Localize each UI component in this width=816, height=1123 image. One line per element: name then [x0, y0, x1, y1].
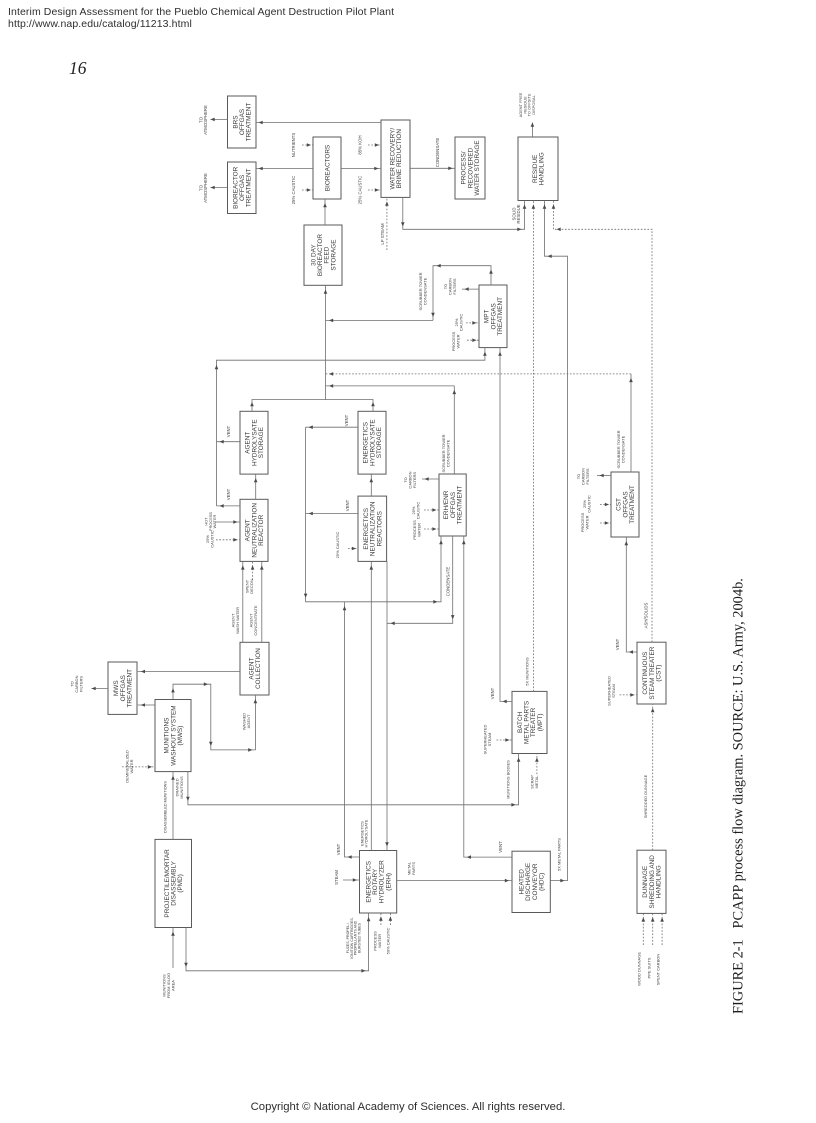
wire ash/solids from CST to residue handling	[552, 201, 652, 643]
wire bioreactors to water recovery	[341, 167, 381, 171]
wire residue handling to offsite disposal	[531, 123, 535, 138]
wire ERH vent	[343, 602, 360, 859]
svg-text:BRINE REDUCTION: BRINE REDUCTION	[396, 129, 403, 189]
wire to carbon filters from CST offgas	[597, 474, 611, 478]
svg-text:FILTERS: FILTERS	[412, 472, 417, 488]
label 85% KOH	[357, 135, 362, 154]
svg-text:WATER: WATER	[417, 523, 422, 537]
wire ERH/ENR offgas condensate header	[326, 384, 455, 388]
svg-text:ATMOSPHERE: ATMOSPHERE	[203, 173, 208, 203]
label TO ATMOSPHERE (bioreactor offgas)	[198, 173, 208, 203]
wire 25% caustic into MPT offgas	[466, 321, 479, 325]
box HEATED DISCHARGE CONVEYOR (HDC)	[512, 851, 550, 912]
label VENT (agent reactor)	[226, 488, 231, 500]
svg-text:SHREDDED DUNNAGE: SHREDDED DUNNAGE	[643, 774, 648, 818]
wire scrap metal stub	[535, 754, 539, 775]
label 25% CAUSTIC (agent reactor)	[205, 530, 214, 548]
svg-text:HYDROLYSATE: HYDROLYSATE	[365, 819, 369, 847]
wire process water into ERH	[379, 913, 383, 925]
box RESIDUE HANDLING	[518, 137, 558, 201]
wire bioreactors to bioreactor offgas	[256, 167, 313, 171]
wire superheated steam into batch MPT	[497, 738, 513, 742]
box ENERGETICS NEUTRALIZATION REACTORS	[358, 496, 387, 561]
label METAL PARTS	[407, 861, 416, 875]
label VENT (HDC)	[498, 841, 503, 853]
svg-text:CONDENSATE: CONDENSATE	[423, 277, 428, 305]
label AGENT CONCENTRATE	[249, 605, 258, 635]
svg-text:CONDENSATE: CONDENSATE	[435, 138, 440, 168]
svg-text:TREATMENT: TREATMENT	[629, 485, 636, 524]
svg-text:STEAM: STEAM	[334, 870, 339, 885]
svg-text:AREA: AREA	[170, 980, 175, 991]
wire water recovery condensate to process water storage	[410, 167, 455, 171]
svg-text:STORAGE: STORAGE	[330, 240, 337, 271]
box WATER RECOVERY / BRINE REDUCTION	[381, 120, 410, 197]
svg-text:STORAGE: STORAGE	[376, 427, 383, 458]
label 25% CAUSTIC (ERH/ENR offgas)	[411, 502, 420, 520]
label TO CARBON FILTERS (CST offgas)	[576, 468, 590, 485]
wire energetics reactors to energetics storage	[370, 474, 374, 496]
wire spent carbon into dunnage shredding	[660, 913, 664, 945]
box AGENT COLLECTION	[240, 642, 269, 695]
wire 5X munitions from batch MPT to residue handling	[532, 201, 536, 692]
wire 30 day storage feed to bioreactors	[323, 199, 327, 225]
wire 25% caustic into ERH/ENR offgas	[424, 508, 439, 512]
wire metal parts ERH to HDC	[397, 879, 512, 883]
svg-text:SPENT CARBON: SPENT CARBON	[656, 954, 661, 986]
svg-text:FIGURE 2-1 PCAPP process flo: FIGURE 2-1 PCAPP process flow diagram. S…	[731, 578, 747, 1014]
label 25% CAUSTIC (energetics reactors)	[335, 532, 340, 559]
box ENERGETICS ROTARY HYDROLYZER (ERH)	[360, 851, 397, 914]
label VENT (batch MPT)	[490, 687, 495, 699]
svg-text:85% KOH: 85% KOH	[357, 135, 362, 154]
svg-text:WASH WATER: WASH WATER	[235, 607, 240, 634]
label SCRUBBER TOWER CONDENSATE (MPT)	[418, 272, 427, 310]
wire process water into MPT offgas	[467, 338, 479, 342]
svg-text:VENT: VENT	[344, 414, 349, 426]
box CST OFFGAS TREATMENT	[611, 472, 639, 537]
label AGENT WASH WATER	[231, 607, 240, 634]
box MPT OFFGAS TREATMENT	[479, 285, 507, 348]
wire 25% caustic into water recovery	[368, 188, 381, 192]
svg-text:CONDENSATE: CONDENSATE	[446, 439, 451, 467]
svg-text:25% CAUSTIC: 25% CAUSTIC	[291, 176, 296, 205]
wire CST vent to CST offgas	[625, 537, 638, 654]
label NUTRIENTS	[291, 133, 296, 158]
wire hot process water into agent reactor	[216, 520, 240, 524]
wire feed storage riser	[324, 285, 328, 399]
svg-text:TREATMENT: TREATMENT	[497, 297, 504, 336]
label PROCESS WATER (ERH/ENR offgas)	[412, 520, 421, 540]
svg-text:FILTERS: FILTERS	[585, 468, 590, 484]
wire bioreactor offgas to atmosphere	[211, 186, 228, 190]
svg-text:VENT: VENT	[490, 687, 495, 699]
svg-text:METAL: METAL	[534, 775, 539, 789]
svg-text:REACTORS: REACTORS	[376, 511, 383, 546]
svg-text:TREATMENT: TREATMENT	[246, 103, 253, 142]
box ENERGETICS HYDROLYSATE STORAGE	[358, 411, 386, 474]
label PPE SUITS	[647, 957, 652, 978]
svg-text:RESIDUE: RESIDUE	[516, 204, 521, 223]
label 5X MUNITIONS	[525, 657, 530, 686]
label PROCESS WATER (MPT offgas)	[451, 331, 460, 351]
svg-text:WATER STORAGE: WATER STORAGE	[474, 140, 481, 195]
label DRAINED MUNITIONS	[175, 776, 184, 799]
label 50% CAUSTIC (ERH)	[386, 928, 391, 955]
label DISASSEMBLED MUNITIONS	[164, 781, 168, 833]
svg-text:DECON: DECON	[249, 579, 254, 594]
svg-text:CAUSTIC: CAUSTIC	[459, 314, 464, 332]
svg-text:LP STEAM: LP STEAM	[380, 223, 385, 245]
svg-text:(ERH): (ERH)	[385, 873, 392, 891]
wire to carbon filters from MPT offgas	[462, 287, 479, 291]
label SPENT DECON	[245, 579, 254, 594]
box MWS OFFGAS TREATMENT	[108, 662, 137, 714]
wire to carbon filters from ERH/ENR offgas	[422, 477, 439, 481]
wire demineralized water into MWS	[122, 765, 155, 769]
svg-text:50% CAUSTIC: 50% CAUSTIC	[386, 928, 391, 955]
wire energetics storage vent	[306, 425, 358, 429]
svg-text:25% CAUSTIC: 25% CAUSTIC	[357, 176, 362, 205]
label TO CARBON FILTERS (MPT offgas)	[443, 278, 457, 295]
svg-text:TREATMENT: TREATMENT	[457, 486, 464, 525]
wire 25% caustic into bioreactors	[302, 188, 313, 192]
svg-text:25% CAUSTIC: 25% CAUSTIC	[335, 532, 340, 559]
wire energetics from PMD to ERH	[184, 913, 370, 973]
wire nutrients into bioreactors	[302, 143, 313, 147]
svg-text:BIOREACTORS: BIOREACTORS	[324, 145, 331, 191]
wire 5X metal parts from HDC to residue handling	[543, 201, 568, 883]
wire water recovery solid residue to residue handling	[401, 197, 526, 231]
label CONDENSATE (ERH/ENR offgas)	[445, 567, 450, 597]
label TO ATMOSPHERE (BRS)	[198, 105, 208, 135]
svg-text:TREATMENT: TREATMENT	[127, 669, 134, 708]
box MUNITIONS WASHOUT SYSTEM (MWS)	[155, 700, 191, 772]
box PROJECTILE/MORTAR DISASSEMBLY (PMD)	[155, 839, 192, 927]
wire agent hydrolysate storage vent	[217, 440, 241, 444]
box BATCH METAL PARTS TREATER (MPT)	[512, 691, 547, 753]
wire recycle to ERH	[385, 561, 389, 850]
svg-text:FILTERS: FILTERS	[452, 278, 457, 294]
footer copyright	[0, 1101, 816, 1113]
svg-text:CONCENTRATE: CONCENTRATE	[253, 605, 258, 635]
wire CST offgas scrubber condensate riser	[629, 374, 633, 472]
wire scrubber condensate to feed storage riser	[326, 319, 434, 323]
wire hydrolysate storage top header	[250, 400, 375, 412]
wire agent concentrate line	[260, 561, 264, 642]
label WASHED AGENT	[242, 713, 251, 731]
svg-text:(MPT): (MPT)	[537, 714, 544, 732]
wire munitions from igloo area into PMD	[171, 928, 175, 969]
svg-text:WATER: WATER	[129, 759, 134, 773]
svg-text:VENT: VENT	[345, 499, 350, 511]
wire energetics vent header	[304, 427, 443, 603]
label SCRUBBER TOWER CONDENSATE (ERH/ENR)	[441, 434, 450, 472]
box PROCESS / RECOVERED WATER STORAGE	[455, 137, 485, 199]
wire 25% caustic into agent reactor	[216, 538, 240, 542]
label ENERGETICS HYDROLYSATE	[361, 819, 369, 847]
label 25% CAUSTIC (water recovery)	[357, 176, 362, 205]
wire energetics reactors vent	[306, 512, 358, 516]
label SHREDDED DUNNAGE	[643, 774, 648, 818]
wire water recovery vent to BRS offgas	[256, 121, 381, 125]
svg-text:HANDLING: HANDLING	[656, 865, 663, 898]
svg-text:NUTRIENTS: NUTRIENTS	[291, 133, 296, 158]
svg-text:CAUSTIC: CAUSTIC	[587, 495, 592, 513]
wire agent wash water line	[241, 561, 245, 642]
svg-text:VENT: VENT	[226, 488, 231, 500]
label SUPERHEATED STEAM (CST)	[607, 676, 616, 706]
label 25% CAUSTIC (CST offgas)	[582, 495, 591, 513]
wire agent vent header	[215, 348, 487, 506]
wire spent decon stub	[251, 561, 255, 580]
wire 25% caustic into energetics reactors	[348, 547, 358, 551]
box BIOREACTOR OFFGAS TREATMENT	[228, 162, 257, 214]
label MUNITIONS FROM IGLOO AREA	[162, 973, 176, 999]
svg-text:DISPOSAL: DISPOSAL	[531, 94, 536, 114]
label SOLID RESIDUE	[511, 204, 521, 223]
wire shredded dunnage to CST	[651, 704, 655, 850]
label DEMINERALIZED WATER	[125, 750, 134, 783]
svg-text:CONDENSATE: CONDENSATE	[621, 435, 626, 463]
svg-text:CAUSTIC: CAUSTIC	[210, 530, 215, 548]
svg-text:WATER: WATER	[585, 515, 590, 529]
label VENT (ERH)	[336, 843, 341, 855]
label FUZES PROPELLANTS BURSTERS	[346, 917, 362, 958]
wire MWS offgas to carbon filters	[92, 687, 109, 691]
svg-text:PPE SUITS: PPE SUITS	[647, 957, 652, 978]
label WOOD DUNNAGE	[637, 952, 642, 986]
label 25% CAUSTIC (bioreactors)	[291, 176, 296, 205]
svg-text:ATMOSPHERE: ATMOSPHERE	[203, 105, 208, 135]
label TO CARBON FILTERS (MWS offgas)	[70, 675, 84, 692]
rotated figure	[54, 1029, 56, 1031]
svg-text:(CST): (CST)	[656, 665, 663, 682]
label HOT PROCESS WATER	[204, 512, 217, 531]
svg-text:AGENT: AGENT	[246, 714, 251, 728]
svg-text:DISASSEMBLED MUNITIONS: DISASSEMBLED MUNITIONS	[164, 781, 168, 833]
box BRS OFFGAS TREATMENT	[228, 96, 257, 148]
svg-text:STEAM: STEAM	[611, 684, 616, 698]
svg-text:WATER: WATER	[456, 334, 461, 348]
box DUNNAGE SHREDDING AND HANDLING	[637, 850, 666, 913]
wire LP steam into water recovery	[385, 197, 389, 250]
wire drained munitions from MWS to batch MPT	[186, 754, 520, 807]
wire MPT offgas vent riser	[431, 264, 493, 321]
svg-text:MUNITIONS BODIES: MUNITIONS BODIES	[506, 760, 511, 799]
svg-text:STORAGE: STORAGE	[258, 427, 265, 458]
label 25% CAUSTIC (MPT offgas)	[454, 314, 463, 332]
svg-text:FILTERS: FILTERS	[78, 676, 83, 692]
wire 50% caustic into ERH	[389, 913, 393, 925]
wire washed agent from MWS to agent collection	[171, 682, 257, 751]
svg-text:TREATMENT: TREATMENT	[246, 168, 253, 207]
svg-text:ASH/SOLIDS: ASH/SOLIDS	[643, 602, 648, 628]
label TO CARBON FILTERS (ERH/ENR offgas)	[403, 471, 417, 488]
label SCRAP METAL	[530, 775, 539, 789]
label STEAM	[334, 870, 339, 885]
wire CST offgas condensate header	[326, 372, 632, 376]
svg-text:REACTOR: REACTOR	[258, 514, 265, 546]
wire steam into ERH	[343, 878, 360, 882]
svg-text:PARTS: PARTS	[411, 862, 416, 875]
svg-text:COLLECTION: COLLECTION	[255, 648, 262, 689]
svg-text:WATER: WATER	[212, 515, 217, 529]
label SUPERHEATED STEAM (batch MPT)	[483, 725, 492, 755]
svg-text:BURSTED TUBES: BURSTED TUBES	[358, 922, 362, 953]
wire batch MPT vent	[498, 348, 512, 704]
svg-text:CONDENSATE: CONDENSATE	[445, 567, 450, 597]
box AGENT NEUTRALIZATION REACTOR	[240, 499, 268, 561]
box ERH/ENR OFFGAS TREATMENT	[439, 474, 466, 536]
box 30 DAY BIOREACTOR FEED STORAGE	[304, 225, 342, 285]
wire agent collection vent to MWS offgas	[138, 670, 240, 674]
label CONDENSATE	[435, 138, 440, 168]
wire energetics hydrolysate from ERH	[370, 561, 374, 850]
label VENT (CST)	[615, 638, 620, 650]
wire ERH/ENR offgas condensate return	[387, 536, 455, 625]
label SPENT CARBON	[656, 954, 661, 986]
label AGENT FREE RESIDUE TO OFFSITE DISPOSAL	[518, 92, 536, 117]
label LP STEAM	[380, 223, 385, 245]
box CONTINUOUS STEAM TREATER (CST)	[637, 642, 666, 704]
label PROCESS WATER (CST offgas)	[580, 512, 589, 532]
header line 1	[8, 6, 394, 31]
wire HDC vent	[462, 536, 512, 859]
svg-text:(MWS): (MWS)	[177, 726, 184, 746]
wire process water into CST offgas	[600, 521, 611, 525]
wire process water into ERH/ENR offgas	[424, 527, 439, 531]
svg-text:STEAM: STEAM	[487, 733, 492, 747]
label VENT (energetics storage)	[344, 414, 349, 426]
label VENT (energetics reactors)	[345, 499, 350, 511]
wire agent reactor to agent storage	[254, 474, 258, 499]
svg-text:WATER: WATER	[377, 934, 382, 948]
svg-text:VENT: VENT	[336, 843, 341, 855]
svg-text:MUNITIONS: MUNITIONS	[179, 776, 184, 799]
box AGENT HYDROLYSATE STORAGE	[240, 411, 268, 474]
svg-text:HANDLING: HANDLING	[539, 152, 546, 185]
wire agent reactor vent	[217, 504, 241, 508]
wire PPE suits into dunnage shredding	[651, 913, 655, 945]
wire wood dunnage into dunnage shredding	[642, 913, 646, 945]
wire ERH/ENR offgas scrubber condensate riser	[453, 386, 457, 474]
label ASH/SOLIDS	[643, 602, 648, 628]
label PROCESS WATER (ERH)	[373, 931, 382, 951]
svg-text:CAUSTIC: CAUSTIC	[416, 502, 421, 520]
wire 25% caustic into CST offgas	[600, 503, 611, 507]
svg-text:VENT: VENT	[615, 638, 620, 650]
page number	[69, 58, 87, 79]
svg-text:5X METAL PARTS: 5X METAL PARTS	[557, 838, 562, 871]
wire 85% KOH into water recovery	[368, 143, 381, 147]
wire BRS offgas to atmosphere	[211, 118, 228, 122]
wire MWS vent to MWS offgas	[138, 703, 155, 707]
label VENT (agent storage)	[226, 425, 231, 437]
wire superheated steam into CST	[620, 693, 638, 697]
label 5X METAL PARTS	[557, 838, 562, 871]
svg-text:VENT: VENT	[226, 425, 231, 437]
label SCRUBBER TOWER CONDENSATE (CST)	[616, 430, 625, 468]
svg-text:(HDC): (HDC)	[538, 873, 545, 891]
svg-text:VENT: VENT	[498, 841, 503, 853]
label MUNITIONS BODIES	[506, 760, 511, 799]
svg-text:WOOD DUNNAGE: WOOD DUNNAGE	[637, 952, 642, 986]
svg-text:5X MUNITIONS: 5X MUNITIONS	[525, 657, 530, 686]
svg-text:(PMD): (PMD)	[177, 874, 184, 892]
wire disassembled munitions PMD to MWS	[171, 772, 175, 840]
box BIOREACTORS	[313, 137, 341, 199]
